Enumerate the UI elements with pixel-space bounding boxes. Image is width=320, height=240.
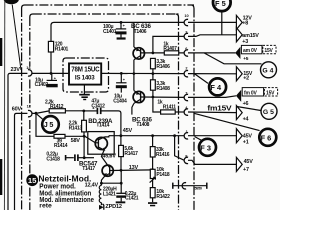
wire pin6 to am0V: [188, 52, 235, 54]
capacitor C1402 10u: [35, 73, 58, 88]
pin 1: [184, 133, 188, 139]
svg-text:C1402: C1402: [35, 82, 49, 88]
pin 8: [184, 157, 188, 163]
resistor R1408 3,3k: [152, 74, 154, 80]
potentiometer P1418 10k: [151, 168, 154, 171]
resistor R1413 2,2k: [83, 111, 85, 120]
module inner border (dash-dot): [30, 14, 179, 210]
capacitor C1401 100u: [103, 21, 127, 40]
svg-text:R1406: R1406: [156, 64, 170, 70]
T1408 base wire to pin 7: [141, 96, 184, 98]
module outer border (dash-dot): [22, 5, 194, 210]
svg-text:fm15V: fm15V: [207, 103, 231, 112]
F6 circle: [259, 129, 276, 146]
triangle out am15V +3: [236, 28, 242, 42]
svg-text:R1407: R1407: [163, 46, 177, 52]
ground: [148, 202, 157, 204]
svg-text:10: 10: [184, 13, 188, 18]
wire pin2 to +2: [188, 73, 236, 75]
svg-text:R1412: R1412: [50, 104, 64, 110]
node 12,4V: [100, 182, 103, 185]
scan edge black strip top: [0, 38, 2, 66]
svg-text:15: 15: [28, 176, 37, 185]
wire pin8 to +7: [188, 160, 236, 164]
voltage regulator IC IS1403 78M15UC: [69, 63, 101, 84]
svg-text:F 5: F 5: [215, 0, 226, 8]
svg-text:C1421: C1421: [125, 196, 139, 202]
branch to F6: [195, 113, 260, 130]
svg-text:45,6V: 45,6V: [102, 153, 116, 159]
leader line from badge to pin 14: [12, 5, 21, 70]
pin 7: [184, 94, 188, 100]
wire pin10 to +8: [188, 21, 236, 23]
svg-text:L1421: L1421: [103, 191, 116, 197]
svg-text:+1: +1: [243, 139, 249, 145]
branch to G5: [237, 107, 261, 111]
inductor L1421 220uH (vertical coil): [99, 183, 117, 202]
svg-text:15V: 15V: [266, 90, 275, 96]
F4 circle: [209, 78, 226, 95]
junction node R1401/C1402: [50, 72, 53, 75]
svg-text:ZPD12: ZPD12: [105, 204, 121, 210]
F3 circle: [199, 139, 216, 156]
capacitor C1404 10u: [113, 72, 127, 104]
resistor R1412 2,2k: [49, 109, 65, 113]
wire J5 bottom / R1414: [36, 113, 54, 136]
svg-text:G 5: G 5: [263, 109, 274, 116]
junction base rail: [152, 52, 155, 55]
cable link at bottom: [173, 183, 207, 191]
svg-text:R1408: R1408: [156, 86, 170, 92]
svg-text:60V: 60V: [12, 107, 22, 113]
pin 10: [184, 19, 188, 25]
svg-text:F 6: F 6: [261, 133, 272, 142]
23V feed wire: [8, 73, 27, 210]
badge 15: [26, 174, 38, 186]
transistor T1406 (PNP, base right): [133, 22, 144, 90]
wire 23V rail top (to pin 10): [51, 22, 184, 73]
svg-text:F 4: F 4: [210, 83, 222, 92]
pin 12: [28, 110, 32, 116]
boxed label fm 0V / 15V: [242, 88, 277, 107]
wire pin3 to +3: [188, 35, 236, 37]
regulator ground pin + ground: [79, 85, 90, 101]
svg-text:+2: +2: [243, 76, 249, 82]
wire pin1 branch down to pin 8: [175, 136, 184, 161]
T1406 base wire to pin 6 with R1407: [141, 52, 184, 54]
svg-text:T1406: T1406: [134, 29, 147, 35]
svg-text:R1411: R1411: [163, 105, 176, 111]
resistor R1416 33k: [152, 136, 154, 147]
resistor R1417 5,6k: [120, 136, 122, 146]
svg-text:T1408: T1408: [136, 122, 149, 128]
svg-text:T1417: T1417: [82, 166, 95, 172]
svg-text:R1414: R1414: [54, 143, 68, 149]
filled arrow am0V: [235, 47, 240, 59]
svg-text:C1418: C1418: [46, 156, 60, 162]
capacitor C1418 0,22u: [46, 135, 94, 162]
svg-text:fm 0V: fm 0V: [244, 90, 257, 96]
svg-text:F 3: F 3: [200, 143, 211, 152]
svg-text:C1412: C1412: [91, 103, 105, 109]
branch to G4: [204, 53, 262, 64]
svg-text:J 5: J 5: [44, 120, 54, 129]
svg-text:+7: +7: [243, 167, 249, 173]
G4 circle: [261, 62, 277, 78]
svg-text:R1417: R1417: [124, 151, 138, 157]
cable pin bracket: [182, 183, 186, 189]
resistor R1422 10k: [152, 179, 154, 188]
F5 circle: [213, 0, 231, 35]
pin 6: [184, 50, 188, 56]
triangle out 15V +2: [236, 67, 242, 81]
wire pin1 to +1: [188, 135, 236, 137]
zener diode ZPD12: [99, 203, 122, 211]
transistor T1417 BC547 (base right): [101, 164, 113, 183]
svg-text:G 4: G 4: [262, 67, 273, 74]
filled arrow fm0V: [236, 90, 241, 102]
45V collector wire to pin 1: [109, 135, 184, 137]
resistor R1406 3,3k: [151, 58, 156, 68]
capacitor C1421 0,22u: [116, 170, 139, 203]
wire from pin12 to R1412: [32, 111, 49, 114]
svg-text:+6: +6: [243, 101, 249, 107]
svg-text:13V: 13V: [129, 165, 139, 171]
transistor T1414 (NPN in box): [85, 136, 109, 165]
J5 circle: [36, 113, 59, 132]
boxed label am 0V / 15V: [241, 45, 276, 62]
60V feed wire: [15, 113, 28, 210]
svg-text:am15V: am15V: [242, 33, 259, 39]
svg-text:78M 15UC: 78M 15UC: [71, 65, 100, 74]
triangle out 12V +8: [236, 15, 242, 29]
svg-text:23V: 23V: [11, 67, 21, 73]
node for R1413 / C1412: [82, 110, 85, 113]
pin 4: [184, 109, 188, 115]
triangle out 45V +1: [236, 129, 242, 143]
pin 3: [184, 33, 188, 39]
wire rail to pin 3: [153, 36, 184, 53]
circled badge (cut at top edge): [4, 0, 19, 4]
scan edge black strip bottom: [0, 159, 2, 195]
svg-text:R1416: R1416: [156, 152, 170, 158]
svg-text:IS 1403: IS 1403: [75, 75, 95, 82]
pin 2: [184, 71, 188, 77]
svg-text:45V: 45V: [123, 128, 133, 134]
svg-text:R1422: R1422: [156, 194, 170, 200]
svg-text:P1418: P1418: [156, 172, 169, 178]
23V wire into regulator: [32, 72, 69, 74]
svg-text:7: 7: [185, 91, 187, 96]
wire pin7 to fm0V: [188, 96, 236, 98]
resistor R1407 1k (in pin6 wire): [164, 51, 178, 55]
svg-text:R1401: R1401: [55, 46, 69, 52]
svg-text:58V: 58V: [71, 138, 81, 144]
svg-text:5950: 5950: [195, 186, 202, 190]
svg-text:+5: +5: [243, 56, 249, 62]
regulator output 15V wire to pin 2: [101, 72, 184, 74]
capacitor C1412 47u: [84, 98, 121, 135]
svg-text:rete: rete: [39, 202, 52, 209]
resistor R1401 120: [48, 41, 53, 52]
triangle out +4: [236, 106, 242, 120]
svg-text:T1414: T1414: [96, 122, 109, 128]
svg-text:am 0V: am 0V: [243, 48, 258, 54]
13V base wire: [110, 169, 153, 172]
power transistor box BD239A: [88, 132, 114, 155]
svg-text:R1413: R1413: [69, 125, 83, 131]
svg-text:+3: +3: [242, 39, 248, 45]
svg-text:+8: +8: [242, 20, 248, 26]
svg-text:45V: 45V: [244, 159, 254, 165]
regulator sub-module dash-dot box: [63, 58, 109, 92]
transistor T1408 (PNP, base right): [132, 91, 145, 115]
resistor R1414 39: [54, 134, 65, 138]
svg-text:+4: +4: [243, 117, 249, 123]
resistor R1411 1k (in pin4 wire): [153, 97, 161, 112]
svg-text:15V: 15V: [264, 48, 273, 54]
pin 14: [28, 70, 32, 76]
wire pin4 to +4: [188, 111, 236, 114]
G5 circle: [261, 103, 277, 119]
triangle out 45V +7: [236, 157, 242, 171]
page fold line left: [3, 0, 5, 210]
branch to F3: [195, 137, 203, 141]
svg-text:C1401: C1401: [103, 29, 117, 35]
branch to F4: [195, 74, 209, 84]
wire to C1421: [101, 182, 121, 184]
junction T1406/T1408 chain on 15V rail: [133, 72, 136, 75]
svg-text:C1404: C1404: [113, 98, 127, 104]
